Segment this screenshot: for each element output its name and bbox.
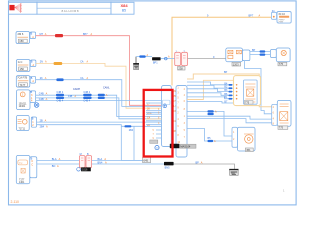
svg-text:2B4: 2B4 — [129, 129, 134, 132]
svg-text:1016: 1016 — [82, 168, 88, 171]
svg-text:G C: G C — [18, 60, 23, 64]
svg-text:BP: BP — [252, 49, 256, 52]
svg-text:7CA F7B: 7CA F7B — [17, 77, 27, 80]
svg-text:MT: MT — [40, 33, 44, 36]
svg-text:150: 150 — [19, 39, 24, 43]
svg-text:775: 775 — [245, 102, 250, 105]
wire ground to chip — [136, 56, 152, 58]
wire chip to relay — [161, 58, 175, 60]
blue drop from T1 stub — [245, 61, 274, 114]
harness splice icon — [9, 3, 22, 12]
svg-text:645: 645 — [143, 158, 148, 162]
svg-text:71711: 71711 — [19, 127, 26, 130]
relay K2 designator — [77, 167, 91, 171]
svg-text:MAS104: MAS104 — [180, 144, 191, 148]
fan cream wire to cream box top pin — [187, 80, 234, 99]
wires T1 to T2 — [250, 51, 271, 53]
fan wire f5 — [187, 97, 234, 99]
wire red row1 — [36, 36, 162, 106]
ground MAS left — [133, 57, 139, 70]
svg-text:BP: BP — [224, 71, 228, 74]
fan wire f1 — [187, 82, 234, 85]
T2 designator — [278, 62, 287, 65]
svg-text:C4B 4: C4B 4 — [57, 91, 64, 94]
connector stub B2 — [30, 60, 36, 67]
strip2 orange labels between strips — [173, 90, 177, 133]
svg-text:BN4: BN4 — [98, 161, 103, 164]
svg-text:14B: 14B — [68, 95, 73, 98]
svg-text:451: 451 — [246, 148, 251, 152]
black chip BP1 — [152, 57, 161, 60]
relay K1 top — [175, 52, 188, 65]
component box T2 — [276, 48, 290, 62]
svg-text:2B4: 2B4 — [40, 126, 45, 129]
svg-text:2K: 2K — [147, 107, 150, 110]
wire g3 to R3 — [187, 119, 273, 123]
svg-text:BN: BN — [52, 165, 56, 168]
CAN chips pair 3 — [98, 94, 105, 96]
svg-text:BLA: BLA — [98, 158, 103, 161]
svg-text:CANL: CANL — [103, 86, 110, 89]
wire row5b branch to strip1 — [121, 125, 162, 127]
wire row5b — [37, 125, 145, 161]
page border — [9, 1, 297, 205]
wire row6a — [37, 159, 143, 161]
wire blue row3 — [36, 80, 162, 107]
svg-text:C4B 4: C4B 4 — [83, 91, 90, 94]
svg-text:2N: 2N — [40, 61, 43, 64]
fan wire f4 — [187, 93, 234, 96]
svg-text:C4B 4: C4B 4 — [83, 99, 90, 102]
T2 stub — [270, 50, 276, 58]
svg-text:MH: MH — [231, 173, 235, 176]
svg-text:C: C — [31, 160, 33, 163]
cream box pin labels — [224, 82, 228, 103]
component box T1 — [226, 48, 243, 62]
bottom black chip — [164, 162, 174, 166]
svg-text:2-110: 2-110 — [11, 200, 20, 204]
cream wire chip — [54, 62, 63, 65]
strip1 pin stubs — [146, 103, 162, 138]
wire g2 to R3 — [187, 116, 273, 119]
wire drop at node x134 — [133, 126, 135, 160]
wire g4 to R4 pin2 — [187, 129, 233, 142]
circled 10 glyph — [155, 146, 159, 150]
black chip between strips bottom — [170, 144, 180, 148]
svg-text:BP7: BP7 — [249, 15, 254, 18]
component box B4 — [16, 90, 30, 110]
wire row4c — [36, 100, 162, 102]
blue wire chip — [56, 78, 63, 81]
connector stub B6 — [30, 157, 37, 178]
wire cream row2 — [36, 63, 162, 108]
CAN chips pair 2 — [83, 94, 91, 96]
strip2 inner orange pin labels — [177, 87, 185, 145]
svg-text:7177: 7177 — [20, 83, 26, 87]
T1 designator — [232, 62, 241, 66]
component box B5 — [16, 115, 29, 130]
fan wire f6 — [187, 102, 234, 104]
component box B1 — [16, 32, 30, 44]
orange wire to top right — [172, 17, 271, 85]
strip1 pin circle — [163, 104, 167, 108]
svg-text:BP7: BP7 — [83, 33, 88, 36]
svg-text:BLA: BLA — [52, 158, 57, 161]
fan wire f3 — [187, 89, 234, 92]
relay K2 bottom — [79, 153, 91, 168]
connector stub B3 — [30, 76, 35, 83]
component box B6 — [16, 155, 30, 184]
svg-text:CA: CA — [80, 61, 84, 64]
svg-text:150: 150 — [20, 67, 25, 71]
cream long wire — [187, 74, 273, 107]
red wire chip — [55, 34, 63, 37]
svg-text:1401: 1401 — [19, 181, 25, 184]
svg-text:8ALHOR8: 8ALHOR8 — [62, 9, 79, 13]
header harness box — [9, 2, 38, 14]
strip1 orange pin labels — [147, 103, 177, 127]
header X84 box — [111, 2, 134, 14]
top-right ID card — [277, 12, 291, 24]
T1 stub — [243, 50, 250, 61]
relay K1 designator — [178, 66, 185, 70]
component box B3 — [16, 76, 30, 88]
wire row5a — [37, 121, 163, 123]
svg-text:2K: 2K — [40, 77, 43, 80]
strip1 inner grey chip — [150, 140, 158, 143]
svg-text:1203: 1203 — [233, 62, 239, 66]
grey wire relay to box T1 — [188, 58, 226, 60]
svg-text:2M 6: 2M 6 — [18, 32, 24, 36]
wire CAN H — [36, 95, 162, 116]
strip1 designator grey box — [143, 157, 151, 162]
svg-text:M: M — [80, 153, 82, 156]
svg-text:C4B 4: C4B 4 — [57, 99, 64, 102]
wire g1 to R4 pin1 — [187, 111, 233, 136]
svg-text:3C 16: 3C 16 — [278, 13, 285, 16]
svg-text:BN5: BN5 — [165, 166, 170, 169]
svg-text:CA: CA — [80, 77, 84, 80]
row5 chip — [125, 125, 132, 127]
svg-text:BP: BP — [196, 161, 200, 164]
connector strip1 — [162, 86, 172, 147]
svg-text:2B: 2B — [40, 119, 43, 122]
CAN chips pair 1 — [56, 94, 64, 96]
top-right connector stub — [271, 12, 276, 19]
cream pin stub — [146, 118, 162, 120]
svg-text:C: C — [31, 164, 33, 167]
svg-text:775: 775 — [279, 62, 284, 66]
connector strip2 — [176, 86, 187, 158]
header title box — [37, 2, 111, 14]
svg-text:C4B: C4B — [39, 93, 44, 96]
component box B2 — [16, 60, 30, 72]
strip1 top inner box — [162, 100, 170, 105]
svg-text:775: 775 — [279, 126, 284, 130]
svg-text:7777: 7777 — [278, 21, 284, 23]
svg-text:CANH: CANH — [73, 88, 80, 91]
wire CAN L — [36, 98, 162, 119]
twisted pair symbol — [34, 103, 39, 108]
ground MH bottom-right — [229, 169, 238, 175]
svg-text:238: 238 — [178, 66, 183, 70]
svg-text:C4B: C4B — [39, 98, 44, 101]
wire row6b — [37, 163, 174, 165]
svg-text:10401: 10401 — [19, 105, 26, 108]
chips on g wires — [208, 110, 214, 112]
grey long wire to ground — [174, 164, 235, 169]
svg-text:B5: B5 — [122, 9, 126, 13]
connector stub B4 — [30, 91, 36, 103]
fan wire f2 — [187, 85, 234, 88]
svg-text:BP1: BP1 — [153, 61, 158, 64]
connector stub B1 — [30, 32, 36, 39]
svg-text:X84: X84 — [120, 3, 128, 8]
connector stub B5 — [31, 117, 36, 127]
